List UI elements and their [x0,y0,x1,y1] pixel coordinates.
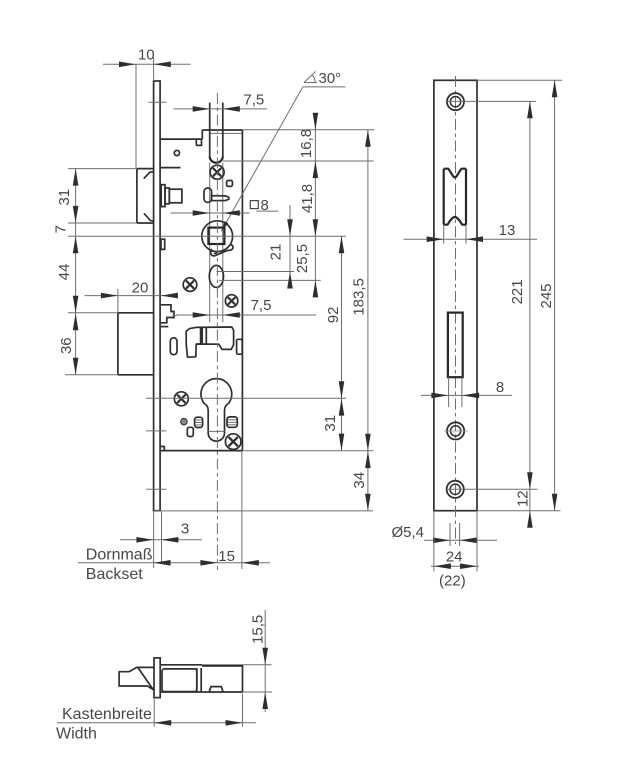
horizontal reference: case bottom extension [242,450,373,452]
horizontal reference: screw line to 25,5-dim [219,279,321,281]
svg-text:34: 34 [351,472,368,489]
collar line under case top right of latch slot [210,132,242,134]
30 degree leader line [221,87,302,231]
guide pin rounded rect below stump [170,338,177,355]
dim 12 [514,490,532,527]
small notch box under case top step [196,139,201,145]
latch bolt nose [119,667,154,689]
svg-text:Width: Width [56,726,97,743]
top screw hole [447,93,464,110]
svg-text:245: 245 [538,283,555,308]
label square 8 [250,201,258,209]
case top view body [160,665,242,692]
extension lines deadbolt [68,312,118,314]
faceplate edge view (two vertical lines) [153,81,161,511]
dim 3 [120,512,202,564]
svg-text:7,5: 7,5 [243,92,264,109]
angle symbol [304,72,317,83]
backset dimension line [78,451,270,569]
svg-text:3: 3 [181,521,189,538]
latch cutout [444,169,466,225]
svg-text:44: 44 [56,264,73,281]
svg-text:21: 21 [268,244,285,261]
screw left of cylinder [174,392,188,406]
dim 21 [268,205,293,289]
main vertical centerline [216,93,218,570]
dim 13 [404,222,538,244]
horizontal reference: case top to right dims [242,129,374,131]
screw below-right of cylinder [225,434,241,450]
dim 34 [351,451,371,511]
middle screw hole [447,422,464,439]
dim 36 left [58,313,78,375]
dim 20 [85,279,178,313]
small lug on faceplate back [161,239,165,249]
latch head bevel tick lower [144,213,154,221]
dim 16,8 [298,113,318,178]
euro profile cylinder [201,379,232,442]
svg-text:183,5: 183,5 [351,278,368,316]
screw (upper, phillips) [210,165,224,179]
latch bolt head (protruding left, top) [137,169,154,223]
dim 92 and 31 line [341,236,343,450]
horizontal reference: follower axis [68,235,346,237]
svg-text:8: 8 [496,379,504,396]
dim 24 [431,511,479,572]
svg-text:24: 24 [446,548,463,565]
svg-text:7,5: 7,5 [251,297,272,314]
faceplate bar [154,658,160,698]
left dimension chain line [75,169,77,375]
small rect at case right edge beside tail [237,339,243,354]
dim 10 [103,47,191,169]
small bump on case bottom [209,687,223,692]
dim 31 left [56,169,78,223]
deadbolt stump stepped detail inside case [161,305,174,323]
dim 92 [325,236,344,398]
horizontal reference: cylinder axis [146,397,346,399]
svg-text:36: 36 [58,337,75,354]
svg-text:10: 10 [138,47,155,64]
svg-text:92: 92 [325,307,342,324]
dim 7,5 top [174,92,268,112]
dim 245 [538,80,557,510]
svg-text:41,8: 41,8 [299,184,316,213]
chain dim line 16,8 / 41,8 / 25,5 [314,117,316,295]
dim 31 right [322,399,344,451]
dim 44 left [56,264,78,313]
oval slot below follower [209,265,223,287]
svg-text:Dornmaß: Dornmaß [86,547,153,564]
svg-text:30°: 30° [319,70,342,87]
screw-hole axis ticks on faceplate [149,101,167,103]
svg-text:31: 31 [322,415,339,432]
horizontal reference: 16,8 lower tick [223,160,374,162]
latch housing top line inside case [161,167,181,169]
follower (handle nut) circle [202,221,233,252]
screw below-right of oval [225,295,237,307]
svg-text:15,5: 15,5 [250,615,267,644]
right view reference lines [477,79,562,81]
dim 15,5 [243,610,273,712]
svg-text:20: 20 [132,279,149,296]
deadbolt tail (stepped block inside case) [186,327,233,357]
small circle near cylinder [181,419,187,425]
small pill A [187,427,193,436]
svg-text:16,8: 16,8 [298,129,315,158]
tiny square detail [227,181,233,187]
dim 221 [509,101,533,489]
dim 183,5 and 34 line [367,130,369,511]
follower notch and bottom tab [211,244,233,256]
lock case outline [161,130,243,451]
svg-text:12: 12 [514,490,531,507]
dim 8 [421,377,512,407]
dim 7 left [53,225,79,253]
dim square 8 line [171,210,279,216]
svg-text:Backset: Backset [86,566,143,583]
deadbolt slot [448,313,463,378]
faceplate front outline [434,80,477,510]
barrel B with hatch [227,417,237,427]
bottom screw hole [447,481,464,498]
small circle top-left inside case [174,150,179,155]
horizontal reference: oval center to 21-dim [216,271,294,273]
deadbolt head (protruding left, lower) [118,313,154,375]
faceplate bottom extension line to right [153,510,373,512]
extension lines latch head [68,168,137,170]
dim 7,5 lower [176,297,316,318]
follower square hole 8mm [208,228,224,244]
guide/extension lines of latch slot going down [209,163,211,323]
dim 183,5 [351,130,371,451]
svg-text:7: 7 [53,225,70,233]
faceplate centerline [455,76,457,544]
barrel C with hatch [195,417,203,427]
svg-text:25,5: 25,5 [294,244,311,273]
svg-text:(22): (22) [439,573,466,590]
dim diameter 5,4 [392,523,498,546]
svg-text:15: 15 [218,548,235,565]
spring pin with shaft detail [204,188,212,202]
dim 221 and 12 line [529,101,531,524]
svg-text:221: 221 [509,279,526,304]
svg-text:31: 31 [56,189,73,206]
svg-text:8: 8 [261,197,269,214]
latch tail pin behind faceplate [161,185,182,207]
kastenbreite dimension [57,694,256,727]
case bottom-left corner notch [161,447,164,451]
dim 41,8 [299,184,318,236]
dim 25,5 [294,244,318,298]
screw left of oval [183,278,197,292]
svg-text:Ø5,4: Ø5,4 [392,524,425,541]
latch slot (top, rounded bottom) [209,103,211,157]
svg-text:Kastenbreite: Kastenbreite [62,706,152,723]
svg-text:13: 13 [499,222,516,239]
latch head bevel tick upper [144,172,154,179]
